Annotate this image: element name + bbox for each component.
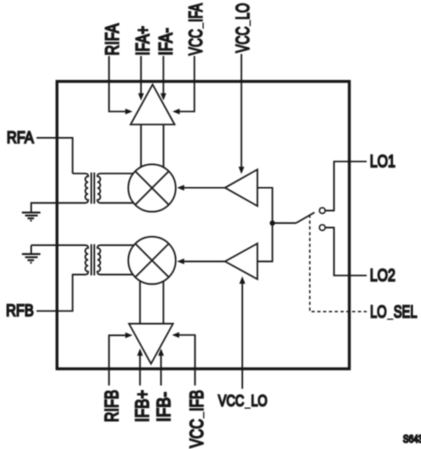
svg-text:RFB: RFB	[6, 302, 34, 321]
svg-text:VCC: VCC	[218, 393, 244, 411]
pin label VCC_IFA	[187, 3, 207, 55]
pin label VCC_LO top	[234, 3, 254, 53]
wire VCC_IFB with arrow into IF amp B	[172, 332, 195, 385]
IC outline box	[57, 81, 349, 368]
wire ground to transformer T2 primary	[30, 245, 32, 253]
dashed wire LO_SEL control	[310, 215, 367, 312]
svg-text:LO2: LO2	[370, 266, 396, 285]
svg-text:IFB-: IFB-	[153, 392, 174, 422]
op-amp LO amp A (triangle left)	[225, 170, 257, 207]
wire IFA- with arrow into IF amp A	[161, 56, 167, 101]
wire RFA to transformer T1 primary	[37, 138, 73, 174]
transformer T2 primary winding, wire down to RFB	[31, 245, 88, 311]
pin label VCC_IFB	[187, 390, 207, 448]
svg-text:IFA+: IFA+	[133, 26, 153, 56]
ground for T1 primary	[22, 213, 41, 221]
svg-text:RFA: RFA	[7, 129, 35, 148]
pin label LO_SEL	[370, 303, 417, 323]
transformer T1 primary winding and wire to ground	[31, 174, 88, 213]
transformer T2 core	[91, 244, 94, 275]
svg-text:LO1: LO1	[370, 152, 396, 171]
mixer A (circle with X)	[128, 164, 175, 211]
wire LO amp B to mixer B with arrow	[177, 259, 225, 265]
wire IFB- with arrow into IF amp B	[158, 349, 164, 386]
wire VCC_LO top with arrow into LO amp A	[239, 54, 245, 174]
pin label LO1	[370, 152, 396, 171]
svg-text:RIFB: RIFB	[102, 390, 122, 422]
pin label IFA+	[133, 26, 153, 56]
wire junction to switch pole	[272, 222, 296, 224]
wire VCC_IFA with arrow into IF amp A	[173, 56, 195, 114]
wire RIFB with arrow into IF amp B	[109, 332, 133, 385]
svg-text:LO: LO	[234, 3, 254, 20]
mixer B (circle with X)	[128, 237, 175, 284]
transformer T1 core	[91, 173, 94, 204]
svg-text:SEL: SEL	[394, 303, 418, 323]
pin label RIFB	[102, 390, 122, 422]
svg-text:IFB: IFB	[187, 390, 207, 411]
pin label IFB+	[132, 390, 153, 422]
op-amp IF amp A (triangle up)	[131, 85, 175, 125]
svg-text:VCC: VCC	[234, 27, 254, 53]
pin label RIFA	[102, 24, 123, 56]
switch contact LO1	[319, 208, 325, 214]
svg-text:IFA: IFA	[187, 3, 207, 22]
svg-text:VCC: VCC	[187, 29, 207, 55]
wire mixer B to IF amp B differential pair	[140, 281, 163, 324]
pin label VCC_LO bottom	[218, 393, 267, 411]
wire LO amp B output to junction	[257, 223, 272, 261]
wire switch to LO2	[325, 228, 367, 276]
junction node dot	[270, 220, 275, 225]
wire RIFA with arrow into IF amp A	[109, 56, 133, 114]
svg-text:LO: LO	[251, 393, 267, 411]
transformer T2 secondary winding, wires to mixer B	[97, 245, 133, 274]
op-amp LO amp B (triangle left)	[225, 244, 257, 280]
figure number S6432	[403, 434, 421, 446]
wire IFA+ with arrow into IF amp A	[138, 56, 144, 101]
wire IFB+ with arrow into IF amp B	[137, 349, 143, 386]
svg-text:IFA-: IFA-	[155, 28, 176, 56]
switch lever	[296, 212, 315, 223]
pin label LO2	[370, 266, 396, 285]
svg-text:S6432: S6432	[403, 434, 421, 446]
wire switch to LO1	[325, 162, 367, 211]
pin label IFB-	[153, 392, 174, 422]
svg-text:LO: LO	[370, 303, 387, 323]
pin label RFB	[6, 302, 34, 321]
wire LO amp A to mixer A with arrow	[177, 185, 225, 191]
ground for T2 primary	[22, 254, 41, 263]
pin label RFA	[7, 129, 35, 148]
wire VCC_LO bottom with arrow into LO amp B	[239, 276, 245, 388]
switch contact LO2	[319, 225, 325, 231]
svg-text:IFB+: IFB+	[132, 390, 153, 422]
wire LO amp A output to junction	[257, 188, 272, 223]
wire IF amp A to mixer A differential pair	[141, 125, 164, 168]
op-amp IF amp B (triangle down)	[129, 324, 173, 364]
transformer T1 secondary winding, wires to mixer A	[97, 174, 133, 203]
svg-text:VCC: VCC	[187, 419, 207, 448]
pin label IFA-	[155, 28, 176, 56]
svg-text:RIFA: RIFA	[102, 24, 123, 56]
